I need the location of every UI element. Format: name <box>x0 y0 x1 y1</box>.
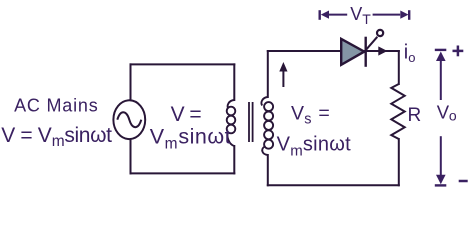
V_o measurement up arrow <box>436 52 446 62</box>
wire: secondary loop right upper <box>398 51 400 84</box>
wire: primary loop right lower <box>233 146 235 173</box>
svg-text:T: T <box>362 11 371 27</box>
svg-text:m: m <box>165 135 178 152</box>
thyristor SCR anode triangle <box>341 39 364 65</box>
V_T measurement left bar <box>319 10 321 20</box>
svg-text:sinωt: sinωt <box>303 133 351 155</box>
V_T measurement right arrow <box>373 14 401 16</box>
svg-text:AC Mains: AC Mains <box>14 95 98 115</box>
wire: primary loop bottom <box>131 172 235 174</box>
svg-text:o: o <box>449 107 457 123</box>
svg-text:V: V <box>291 102 304 124</box>
svg-text:s: s <box>304 112 311 128</box>
wire: secondary loop left upper <box>267 51 269 97</box>
arrow V_s direction <box>279 62 287 87</box>
V_T measurement left arrow <box>321 11 329 19</box>
current direction arrowhead <box>378 46 387 55</box>
svg-text:=: = <box>318 102 329 124</box>
wire: secondary loop top, cathode side <box>365 50 399 52</box>
V_o measurement down arrow <box>440 136 442 177</box>
wire: primary loop top <box>131 63 235 65</box>
svg-text:V =: V = <box>171 103 202 126</box>
svg-text:m: m <box>290 142 303 159</box>
svg-text:V: V <box>277 133 291 155</box>
thyristor gate lead <box>366 37 377 50</box>
wire: primary loop left upper <box>130 64 132 101</box>
thyristor cathode bar <box>365 37 367 67</box>
V_T measurement right bar <box>408 10 410 20</box>
svg-text:R: R <box>408 105 422 126</box>
wire: primary loop left lower <box>130 139 132 173</box>
wire: secondary loop right lower <box>398 139 400 185</box>
wire: secondary loop bottom <box>268 184 399 186</box>
svg-text:sinωt: sinωt <box>64 124 112 147</box>
svg-text:sinωt: sinωt <box>178 124 231 148</box>
AC source V1 <box>113 100 145 139</box>
transformer T1 secondary winding <box>261 97 273 155</box>
gate terminal circle <box>377 30 383 36</box>
wire: secondary loop left lower <box>267 155 269 185</box>
svg-text:m: m <box>52 133 65 150</box>
resistor R <box>391 84 404 139</box>
V_o measurement top bar <box>435 49 447 51</box>
svg-text:V = V: V = V <box>1 124 52 147</box>
svg-text:o: o <box>408 50 415 65</box>
wire: primary loop right upper <box>233 64 235 100</box>
svg-text:V: V <box>437 101 450 122</box>
label minus <box>459 180 468 183</box>
V_o measurement bottom bar <box>435 184 447 186</box>
svg-text:V: V <box>150 124 165 148</box>
label plus <box>453 46 464 57</box>
svg-text:V: V <box>350 4 362 24</box>
transformer core <box>249 102 253 142</box>
wire: secondary loop top, anode side <box>268 50 342 52</box>
transformer T1 primary winding <box>227 100 236 146</box>
